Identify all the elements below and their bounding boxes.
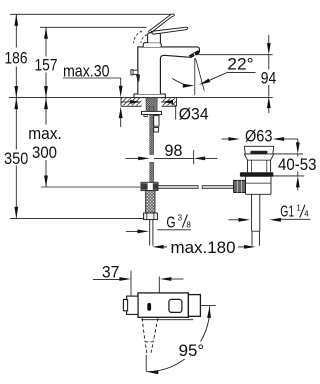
plan lever	[188, 295, 200, 317]
drain neck	[247, 160, 249, 172]
label 22 degrees with leader	[198, 54, 255, 86]
label G 3/8 with leader	[126, 213, 191, 233]
dashed arc lever rear	[134, 31, 142, 43]
drain tailpipe	[252, 194, 260, 245]
extension line spout tip right (94 top)	[197, 54, 273, 56]
dimension 98 (spout reach)	[126, 141, 218, 164]
dimension max.300	[28, 98, 63, 187]
rod clips	[154, 116, 159, 127]
svg-text:max.180: max.180	[171, 238, 236, 257]
dimension 37 with leader	[93, 263, 184, 300]
svg-text:Ø63: Ø63	[245, 127, 273, 146]
dimension 350	[3, 98, 30, 219]
svg-text:350: 350	[4, 149, 29, 168]
raised lever tip	[170, 14, 174, 17]
horizontal pop-up rod right segment	[202, 186, 233, 189]
faucet base plate	[134, 94, 165, 98]
seat line	[244, 153, 273, 155]
mounting washer under deck	[142, 111, 162, 114]
dimension max.180	[152, 238, 255, 257]
svg-text:1: 1	[296, 203, 301, 212]
svg-text:G: G	[166, 214, 175, 231]
angle arc with arrow	[172, 78, 190, 85]
lever boss (pivot)	[148, 33, 161, 43]
lever blade (down position)	[151, 27, 187, 34]
dimension diameter 63	[222, 127, 298, 146]
svg-text:94: 94	[261, 68, 277, 87]
extension line top of raised lever (186)	[10, 13, 171, 15]
extension line max.300 bottom	[41, 186, 141, 188]
lever raised position (phantom)	[148, 15, 172, 33]
svg-text:max.: max.	[28, 124, 62, 143]
threaded shank through deck	[146, 98, 157, 112]
rod nut at drain	[234, 180, 246, 192]
deck (counter top) hatched band	[121, 98, 177, 107]
threaded mounting rod lower	[150, 162, 154, 182]
hose connection tube	[149, 220, 151, 246]
water stream 22 degree line	[196, 58, 205, 91]
hose connection block	[141, 182, 158, 190]
extension line to arc bottom	[145, 355, 147, 372]
pop-up rod knob behind body	[131, 70, 140, 82]
svg-text:37: 37	[102, 263, 120, 282]
plan cartridge square	[169, 299, 182, 312]
svg-text:186: 186	[5, 49, 28, 68]
svg-text:98: 98	[165, 141, 183, 160]
dimension 157	[34, 27, 59, 97]
washer tabs	[144, 115, 147, 117]
flexible hose	[146, 191, 155, 213]
svg-text:157: 157	[35, 55, 58, 74]
pop-up plug head	[250, 151, 267, 154]
label G 1 1/4 with leader	[229, 203, 311, 221]
svg-text:8: 8	[186, 220, 191, 229]
horizontal pop-up rod left segment	[158, 186, 198, 189]
dimension 186	[4, 14, 29, 97]
svg-text:4: 4	[304, 210, 309, 219]
drain neck inner bore lines	[250, 160, 252, 172]
svg-text:40-53: 40-53	[278, 155, 317, 174]
svg-text:Ø34: Ø34	[179, 104, 209, 123]
threaded mounting rod upper	[150, 106, 154, 154]
faucet body with spout	[138, 47, 200, 94]
drain taper	[244, 154, 247, 160]
extension line lever axis right	[201, 305, 216, 307]
svg-text:300: 300	[32, 143, 57, 162]
dashed lever swung position	[142, 318, 158, 353]
plan body	[138, 293, 188, 317]
svg-text:95°: 95°	[179, 341, 205, 360]
dashed arc lever rear inner	[141, 35, 147, 43]
label 95 degrees	[176, 342, 208, 360]
leader max.30 (deck thickness)	[63, 62, 123, 127]
water stream vertical reference line	[194, 58, 196, 95]
95 degree swing arc	[147, 306, 210, 371]
drain top cup	[244, 146, 273, 154]
plan spout block left	[127, 296, 138, 314]
extension line 350 bottom (hose end)	[10, 217, 144, 219]
extension line top of lever down (157)	[40, 26, 147, 28]
extension line deck top left	[9, 97, 273, 99]
drain flange (dark)	[240, 172, 274, 176]
line under plan body	[141, 319, 193, 321]
dimension Ø34 (hole diameter) with leader	[122, 100, 209, 123]
hose end nut	[144, 213, 158, 220]
svg-text:22°: 22°	[227, 54, 253, 73]
svg-text:G1: G1	[280, 204, 294, 221]
svg-text:3: 3	[178, 213, 183, 222]
plan pin (dark)	[147, 303, 151, 311]
dimension 94	[260, 35, 277, 113]
dimension 40-53	[273, 139, 318, 191]
drain body below flange	[246, 177, 272, 195]
aerator (dark tip)	[190, 52, 199, 57]
plan aerator tab	[123, 299, 127, 310]
lever skirt (cartridge cover)	[143, 43, 161, 47]
